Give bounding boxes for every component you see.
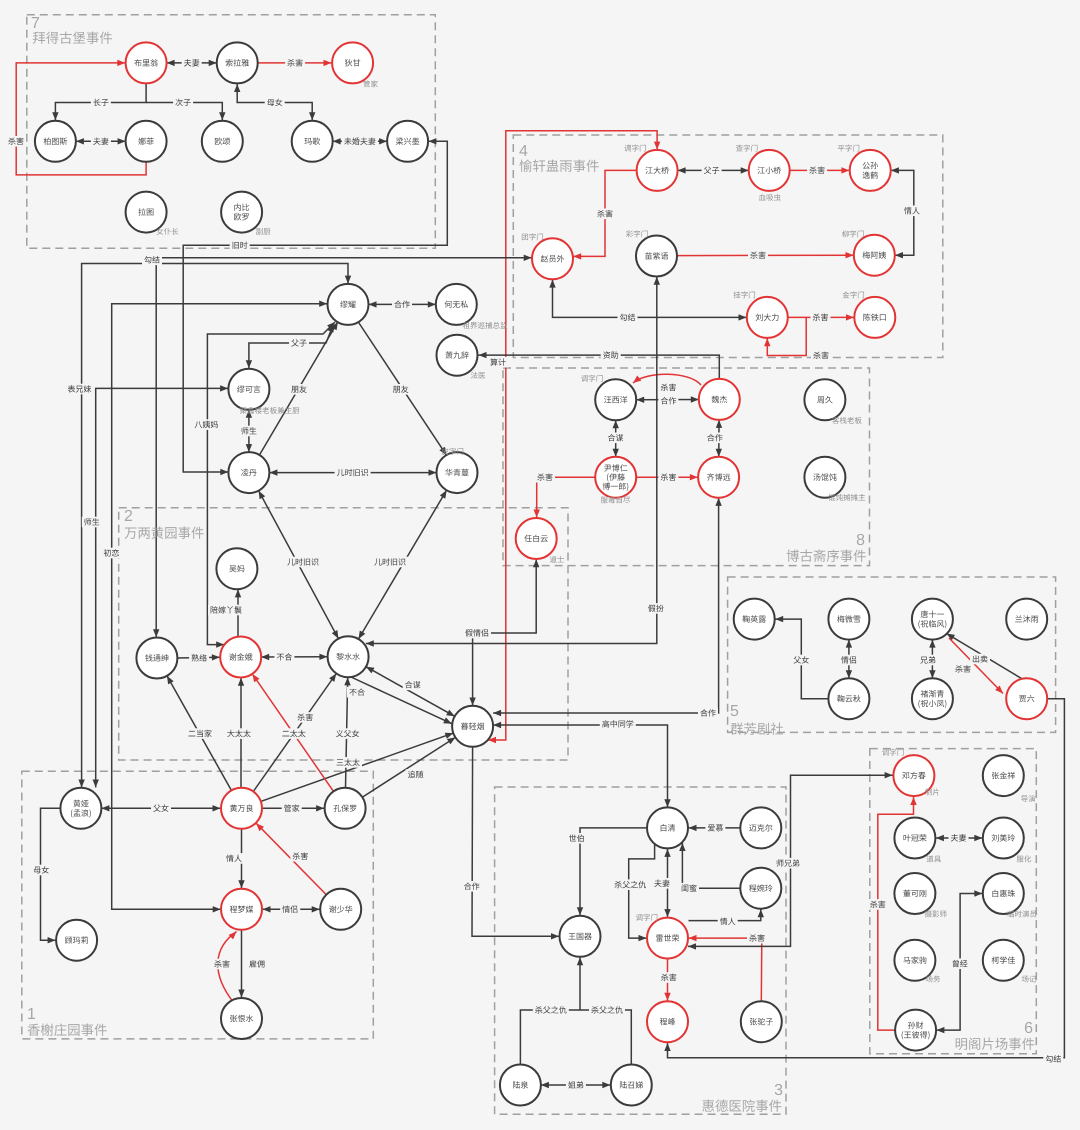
edge 程婉玲-白清 闺蜜 (679, 843, 740, 888)
edge 黄娅-黄万良 父女 (101, 805, 220, 811)
edge 谢金娥-黎水水 不合 (261, 654, 327, 661)
edge 黄万良-暮轻烟 三太太 (261, 733, 454, 802)
node 褚渐青 (912, 678, 953, 719)
edge 程梦媒-张恨水 雇佣 (238, 930, 244, 998)
region box 5 群芳剧社 (728, 577, 1056, 732)
edge 谢少华-黄万良 杀害 (256, 823, 326, 895)
node 鞠云秋 (828, 678, 869, 719)
edge 刘大力-陈铁口 杀害 (788, 314, 854, 320)
node 程峰 (647, 1001, 688, 1042)
node 程婉玲 (740, 868, 781, 909)
node 狄甘 (332, 42, 378, 87)
edge 陆召娣-王国器 杀父之仇 (580, 1010, 631, 1064)
edge 江小桥-公孙逸鹤 杀害 (790, 167, 850, 173)
region box 8 博古斋序事件 (503, 368, 870, 566)
region box 4 愉轩蛊雨事件 (513, 135, 943, 358)
node 程梦媒 (221, 889, 262, 930)
edge 孔保罗-暮轻烟 追随 (362, 737, 455, 797)
edge 陆泉-陆召娣 姐弟 (541, 1082, 610, 1088)
edge 钱通绅-谢金娥 熟络 (177, 654, 220, 660)
edge 梁兴墨-凌丹 旧时 (183, 138, 447, 475)
node 迈克尔 (740, 807, 781, 848)
node 欧颂 (202, 121, 243, 162)
edge 黄万良-程梦媒 情人 (238, 829, 244, 889)
node 柏图斯 (35, 121, 76, 162)
edge 缪可言-凌丹 师生 (246, 410, 252, 452)
node 尹博仁 (595, 457, 636, 504)
node 苗紫语 (626, 230, 677, 276)
edge 缪耀-谢金娥 八姨妈 (207, 322, 335, 648)
node 缪耀 (328, 284, 369, 325)
node 张驼子 (741, 1001, 782, 1042)
edge 缪耀-华青蔓 朋友 (358, 322, 446, 455)
node 公孙逸鹤 (838, 145, 891, 191)
node 齐博远 (698, 457, 739, 498)
region box 7 拜得古堡事件 (27, 15, 436, 249)
node 钱通绅 (136, 638, 177, 679)
edge 暮轻烟-江大桥 算计 (488, 131, 660, 743)
edge 白清-雷世荣 夫妻 (664, 849, 670, 917)
node 拉图 (126, 192, 179, 235)
edge 苗紫语-梅阿姨 杀害 (677, 252, 853, 258)
edge 白清-雷世荣 杀父之仇 (629, 844, 655, 942)
node 白惠珠 (983, 873, 1037, 917)
edge 孙财-白惠珠 曾经 (936, 890, 982, 1033)
node 张恨水 (221, 998, 262, 1039)
edge 魏杰-萧九辞 资助 (479, 352, 720, 379)
edge 尹博仁-齐博远 杀害 (636, 474, 698, 480)
edge 孔保罗-黎水水 义父女 (344, 677, 350, 787)
node 马家驹 (894, 940, 940, 982)
node 黄万良 (221, 788, 262, 829)
edge 梅微雪-鞠云秋 情侣 (846, 640, 852, 679)
edge 谢金娥-吴妈 陪嫁丫鬟 (235, 589, 241, 636)
edge 黄万良-黎水水 二太太 (253, 674, 336, 792)
node 赵员外 (522, 233, 573, 279)
node 贾六 (1006, 678, 1047, 719)
node 何无私 (436, 284, 507, 329)
edge 雷世荣-程婉玲 情人 (689, 909, 765, 920)
node 陆召娣 (611, 1065, 652, 1106)
node 鞠英露 (734, 599, 775, 640)
node 凌丹 (228, 452, 269, 493)
edge 魏杰-汪西洋 杀害 arc (633, 374, 701, 385)
node 黄娅 (60, 788, 101, 829)
node 董可刚 (894, 873, 946, 917)
node 兰沐雨 (1006, 599, 1047, 640)
edge 黎水水-暮轻烟 不合 (351, 677, 452, 724)
edge 索拉雅-玛歌 母女 (234, 84, 315, 120)
edge 魏杰-齐博远 合作 (716, 420, 723, 457)
node 萧九辞 (437, 335, 486, 379)
edge 陆泉-王国器 杀父之仇 (520, 957, 583, 1064)
edge 汪西洋-尹博仁 合谋 (613, 420, 619, 456)
edge 白清-王国器 世伯 (577, 828, 647, 915)
node 索拉雅 (217, 42, 258, 83)
edge 雷世荣-程峰 杀害 (664, 959, 670, 1001)
node 梅阿姨 (842, 230, 895, 275)
region box 1 香榭庄园事件 (22, 771, 374, 1039)
node 刘大力 (734, 291, 788, 338)
edge 暮轻烟-齐博远 合作 (493, 498, 722, 716)
edge 黄万良-孔保罗 管家 (263, 805, 325, 811)
edge 鞠云秋-鞠英露 父女 (775, 616, 828, 699)
node 暮轻烟 (452, 706, 493, 747)
region box 2 万两黄园事件 (119, 508, 568, 760)
edge 唐十一-褚渐青 兄弟 (929, 640, 935, 679)
node 陆泉 (500, 1065, 541, 1106)
edge 尹博仁-任白云 杀害 (534, 477, 596, 517)
node 江小桥 (736, 145, 790, 201)
edge 孔保罗-谢金娥 杀害 (252, 674, 333, 792)
node 王国器 (560, 916, 601, 957)
edge 凌丹-黎水水 儿时旧识 (259, 491, 339, 639)
node 玛歌 (292, 121, 333, 162)
edge 钱通绅-赵员外 勾结 (153, 255, 532, 638)
edge 凌丹-缪耀 朋友 (259, 322, 338, 456)
node 内比欧罗 (221, 192, 270, 235)
edge 布里翁-柏图斯 长子 (52, 83, 146, 120)
node 汤馄饨 (804, 457, 865, 501)
edge 华青蔓-黎水水 儿时旧识 (359, 490, 447, 639)
node 周久 (804, 379, 861, 424)
edge 布里翁-欧颂 次子 (146, 103, 225, 121)
edge 缪耀-何无私 合作 (369, 301, 436, 307)
node 江大桥 (624, 145, 677, 191)
edge 黎水水-苗紫语 假扮 (366, 277, 660, 647)
node 刘美玲 (983, 818, 1031, 863)
edge 张恨水-程梦媒 杀害 arc (218, 932, 237, 1004)
node 孔保罗 (325, 788, 366, 829)
edge 黄娅-缪耀 (78, 264, 351, 788)
edge 暮轻烟-任白云 假情侣 (469, 559, 539, 705)
node 魏杰 (699, 379, 740, 420)
node 吴妈 (216, 548, 257, 589)
edge 贾六-程峰 勾结 (664, 699, 1064, 1058)
edge 黎水水-暮轻烟 合谋 (366, 667, 455, 717)
node 谢少华 (320, 889, 361, 930)
edge 杀害-刘大力 loop (764, 317, 806, 355)
edge 布里翁-索拉雅 夫妻 (167, 60, 217, 66)
node 娜菲 (126, 121, 167, 162)
node 张金祥 (983, 755, 1035, 802)
edge 张驼子-雷世荣 杀害 (689, 935, 762, 1001)
edge 贾六-唐十一 出卖 (947, 634, 1025, 681)
node 邓方春 (882, 749, 939, 796)
edge 公孙逸鹤-梅阿姨 情人 (891, 167, 914, 258)
node 柯学佳 (983, 940, 1036, 982)
edge 柏图斯-娜菲 夫妻 (76, 138, 126, 144)
edge 迈克尔-白清 爱慕 (689, 825, 741, 831)
edge 黄娅-顾玛莉 母女 (41, 808, 61, 943)
edge 唐十一-贾六 杀害 (949, 638, 1003, 694)
node 任白云 (516, 518, 564, 563)
node 缪可言 (228, 369, 299, 414)
node 布里翁 (126, 42, 167, 83)
node 汪西洋 (581, 375, 636, 420)
node 谢金娥 (220, 637, 261, 678)
edge 黄万良-谢金娥 大太太 (238, 678, 244, 788)
edge 程梦媒-缪耀 初恋 (112, 301, 328, 913)
node 梁兴墨 (387, 121, 428, 162)
edge 黄万良-钱通绅 二当家 (167, 676, 231, 791)
region box 6 明阁片场事件 (870, 749, 1037, 1054)
edge 江大桥-赵员外 杀害 (573, 170, 636, 259)
edge 雷世荣-邓方春 师兄弟 (688, 772, 893, 950)
node 顾玛莉 (56, 920, 97, 961)
edge 索拉雅-狄甘 杀害 (258, 60, 332, 66)
edge 缪耀-缪可言 父子 (246, 324, 334, 368)
region box 3 惠德医院事件 (495, 787, 786, 1114)
edge 暮轻烟-白清 高中同学 (493, 722, 671, 807)
node 黎水水 (328, 636, 369, 677)
edge 玛歌-梁兴墨 未婚夫妻 (333, 138, 387, 144)
edge 孙财-邓方春 杀害 (878, 797, 917, 1030)
node 梅微雪 (828, 599, 869, 640)
edge 汪西洋-魏杰 合作 (636, 396, 699, 403)
node 陈铁口 (842, 291, 895, 338)
edge 黄娅-缪可言 表兄妹 (93, 385, 229, 787)
edge 暮轻烟-王国器 合作 (472, 747, 559, 940)
node 白清 (647, 807, 688, 848)
node 华青蔓 (437, 448, 478, 493)
edge 江大桥-江小桥 父子 (678, 167, 749, 173)
edge 刘大力-赵员外 勾结 (549, 280, 746, 321)
node 唐十一 (912, 599, 953, 640)
edge 娜菲-布里翁 杀害 (16, 60, 146, 175)
edge 程梦媒-谢少华 情侣 (263, 906, 320, 912)
edge 叶冠荣-刘美玲 夫妻 (936, 835, 982, 841)
node 叶冠荣 (894, 818, 941, 863)
node 孙财 (895, 1010, 936, 1051)
edge 凌丹-华青蔓 儿时旧识 (269, 469, 436, 475)
node 雷世荣 (636, 914, 688, 959)
